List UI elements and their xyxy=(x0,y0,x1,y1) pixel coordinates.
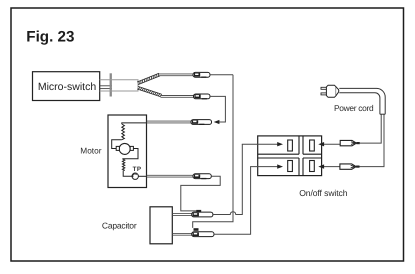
connector micro-switch lower branch xyxy=(194,94,211,99)
thermal protector circle xyxy=(132,173,138,179)
svg-text:Capacitor: Capacitor xyxy=(102,220,137,230)
switch terminal top-left xyxy=(288,140,293,151)
top lead into coil 1 xyxy=(122,123,147,124)
connector power cord top (points left) xyxy=(340,140,360,145)
coil 2 zigzag xyxy=(122,159,124,171)
micro-switch box xyxy=(33,72,100,101)
svg-text:Fig. 23: Fig. 23 xyxy=(26,28,74,45)
svg-text:On/off switch: On/off switch xyxy=(299,188,348,198)
wire micro-switch to clamp (double line) xyxy=(100,86,112,89)
power cord plug nose xyxy=(336,87,339,95)
switch terminal bottom-left xyxy=(288,161,293,172)
power cord plug body xyxy=(326,85,336,97)
wire net C vertical: micro-switch upper to capacitor bottom xyxy=(193,75,233,228)
svg-text:Micro-switch: Micro-switch xyxy=(38,81,96,93)
coil2 down to TP circle xyxy=(123,171,132,177)
wire capacitor bottom lead (double line) xyxy=(172,233,191,235)
wire capacitor top out with hop over net C xyxy=(213,144,242,214)
svg-text:Motor: Motor xyxy=(80,146,101,156)
connector capacitor top (with top tab) xyxy=(192,210,213,217)
connector capacitor bottom (with top tab) xyxy=(192,228,214,236)
coil 1 zigzag xyxy=(122,124,125,140)
wire lower branch out, corner, to arrow at motor connector xyxy=(210,96,225,122)
hatched twisted wire lower branch xyxy=(137,86,162,96)
switch terminal top-right xyxy=(310,140,315,151)
wire upper branch double line xyxy=(159,74,193,76)
motor circle xyxy=(119,143,130,154)
connector motor top lead xyxy=(191,120,212,125)
wire into switch bottom-left with arrow xyxy=(250,166,277,168)
motor right terminal to coil 2 xyxy=(122,149,138,159)
capacitor box xyxy=(150,207,172,244)
cable sleeve tube xyxy=(100,80,138,91)
connector motor TP lead xyxy=(193,174,211,179)
connector micro-switch upper branch xyxy=(193,72,210,77)
TP circle to box edge xyxy=(138,175,146,177)
switch inner dividers xyxy=(258,136,322,176)
coil1 to motor left terminal xyxy=(112,140,122,149)
wire switch top-right to connector xyxy=(323,143,340,145)
wire lower branch double line xyxy=(161,96,194,98)
motor box xyxy=(108,115,147,188)
wire connector to power cord right conductor xyxy=(360,114,385,166)
hatched twisted wire upper branch xyxy=(137,73,160,84)
cable clamp bar xyxy=(110,73,112,96)
on/off switch box xyxy=(258,136,322,176)
wire connector to power cord left conductor xyxy=(360,114,381,143)
connector power cord bottom (points left) xyxy=(340,164,360,169)
arrow into motor top connector xyxy=(214,120,220,124)
wire into switch top-left with arrow xyxy=(242,143,278,145)
motor interior wiring xyxy=(112,123,147,176)
arrow into switch top-right terminal xyxy=(318,142,324,146)
wire net E: TP connector to capacitor top connector tab xyxy=(181,176,220,211)
power cord plug prongs xyxy=(321,87,327,95)
wire upper branch out to vertical xyxy=(210,74,233,76)
wire switch bottom-right to connector xyxy=(323,166,340,168)
svg-text:TP: TP xyxy=(133,166,142,173)
motor left brush terminal xyxy=(116,146,119,150)
svg-text:Power cord: Power cord xyxy=(334,103,374,113)
power cord tube with corner and sleeve xyxy=(339,88,385,114)
wire capacitor bottom out up to switch level xyxy=(214,167,251,235)
arrow into switch bottom-right terminal xyxy=(318,164,324,168)
motor right brush terminal xyxy=(130,146,133,150)
wire capacitor top lead (double line) xyxy=(172,214,191,216)
wire motor top lead (double line) xyxy=(147,121,192,123)
switch terminal bottom-right xyxy=(310,161,315,172)
wire motor TP lead (double line) xyxy=(147,175,194,177)
